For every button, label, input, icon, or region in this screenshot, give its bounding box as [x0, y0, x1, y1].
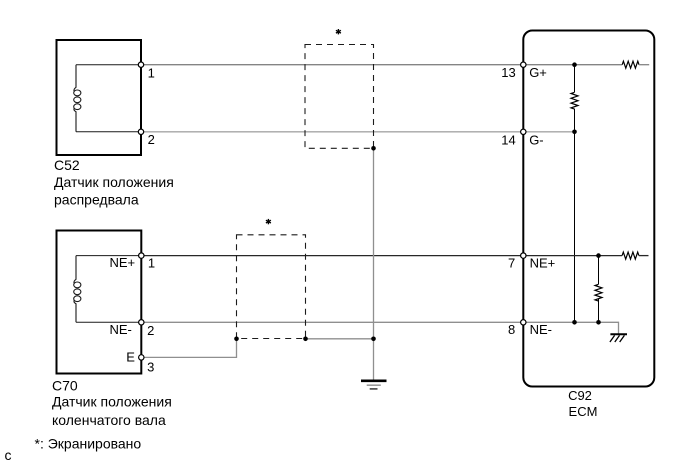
sensor coil L2 (crankshaft position sensor pickup coil) [74, 256, 81, 323]
junction NE- / G- link [572, 320, 577, 325]
svg-text:E: E [126, 349, 135, 364]
svg-text:распредвала: распредвала [54, 192, 139, 208]
svg-text:*: Экранировано: *: Экранировано [35, 435, 142, 451]
junction drain to ground [371, 337, 376, 342]
junction NE+ / R4 [596, 253, 601, 258]
svg-text:C92: C92 [568, 388, 592, 403]
junction bottom shield right [303, 337, 308, 342]
svg-text:NE-: NE- [110, 322, 132, 337]
wire G- (C52 pin2 to ECM pin14) [141, 131, 523, 133]
shield box bottom (NE wires) [237, 235, 306, 339]
wire C70 internal top [76, 255, 141, 257]
wire E (C70 pin3 to shield) [141, 339, 236, 358]
junction G- / R2 [572, 130, 577, 135]
pin ECM-14 [521, 129, 526, 134]
pin ECM-7 [521, 253, 526, 258]
wire G+ (C52 pin1 to ECM pin13) [141, 64, 523, 66]
svg-text:NE+: NE+ [530, 256, 556, 271]
wire NE+ (C70 pin1 to ECM pin7) [141, 255, 523, 257]
wire ECM G+ internal [523, 64, 622, 66]
svg-text:1: 1 [148, 65, 155, 80]
svg-text:c: c [5, 447, 12, 463]
wire C52 internal top [76, 64, 141, 66]
svg-text:2: 2 [148, 132, 155, 147]
connector C52 box [57, 40, 142, 155]
svg-text:1: 1 [148, 256, 155, 271]
svg-text:ECM: ECM [569, 404, 598, 419]
svg-text:Датчик положения: Датчик положения [54, 174, 174, 190]
wire shield link (bottom shield to drain) [306, 338, 374, 340]
shield bottom asterisk [266, 219, 271, 224]
ECM C92 box [523, 31, 654, 387]
wire NE- (C70 pin2 to ECM pin8) [141, 321, 523, 323]
pin C70-2 [139, 320, 144, 325]
ground (earth, shield drain) [361, 381, 387, 389]
svg-text:G-: G- [529, 132, 543, 147]
sensor coil L1 (camshaft position sensor pickup coil) [74, 65, 81, 132]
pin C52-1 [138, 62, 143, 67]
pin C70-1 [139, 253, 144, 258]
shield top asterisk [336, 29, 341, 34]
wire ECM G- to NE- internal [574, 132, 576, 322]
junction G+ / R2 [572, 62, 577, 67]
svg-text:14: 14 [501, 132, 515, 147]
wire ECM G- internal [523, 131, 574, 133]
svg-text:C52: C52 [54, 157, 80, 173]
pin C52-2 [138, 129, 143, 134]
pin C70-3 [139, 355, 144, 360]
connector C70 box [57, 231, 142, 374]
pin ECM-8 [521, 320, 526, 325]
svg-text:13: 13 [501, 65, 515, 80]
svg-text:C70: C70 [52, 377, 78, 393]
wire C70 internal bottom [76, 321, 141, 323]
wire shield drain (top shield down) [373, 148, 375, 338]
svg-text:G+: G+ [529, 65, 547, 80]
resistor R2 (between G+ and G-) [571, 65, 578, 132]
ground (chassis, ECM internal) [610, 334, 627, 342]
junction NE- / R4 [596, 320, 601, 325]
wire ECM NE- internal [523, 321, 598, 323]
svg-text:коленчатого вала: коленчатого вала [52, 412, 166, 428]
svg-text:2: 2 [147, 323, 154, 338]
svg-text:3: 3 [147, 360, 154, 375]
resistor R3 (NE+ series) [622, 252, 648, 259]
wire C52 internal bottom [76, 131, 141, 133]
svg-text:7: 7 [508, 256, 515, 271]
wire ECM NE+ internal [523, 255, 622, 257]
wire drain to earth ground [373, 339, 375, 380]
junction top shield drain [371, 146, 376, 151]
svg-text:8: 8 [508, 322, 515, 337]
resistor R1 (G+ series) [622, 61, 649, 68]
svg-text:NE-: NE- [530, 322, 552, 337]
svg-text:NE+: NE+ [110, 255, 136, 270]
shield box top (G wires) [305, 45, 374, 149]
resistor R4 (between NE+ and NE-) [595, 256, 602, 323]
junction bottom shield left [234, 337, 239, 342]
pin ECM-13 [521, 62, 526, 67]
wire ECM NE- to chassis ground [599, 322, 619, 334]
svg-text:Датчик положения: Датчик положения [52, 394, 172, 410]
